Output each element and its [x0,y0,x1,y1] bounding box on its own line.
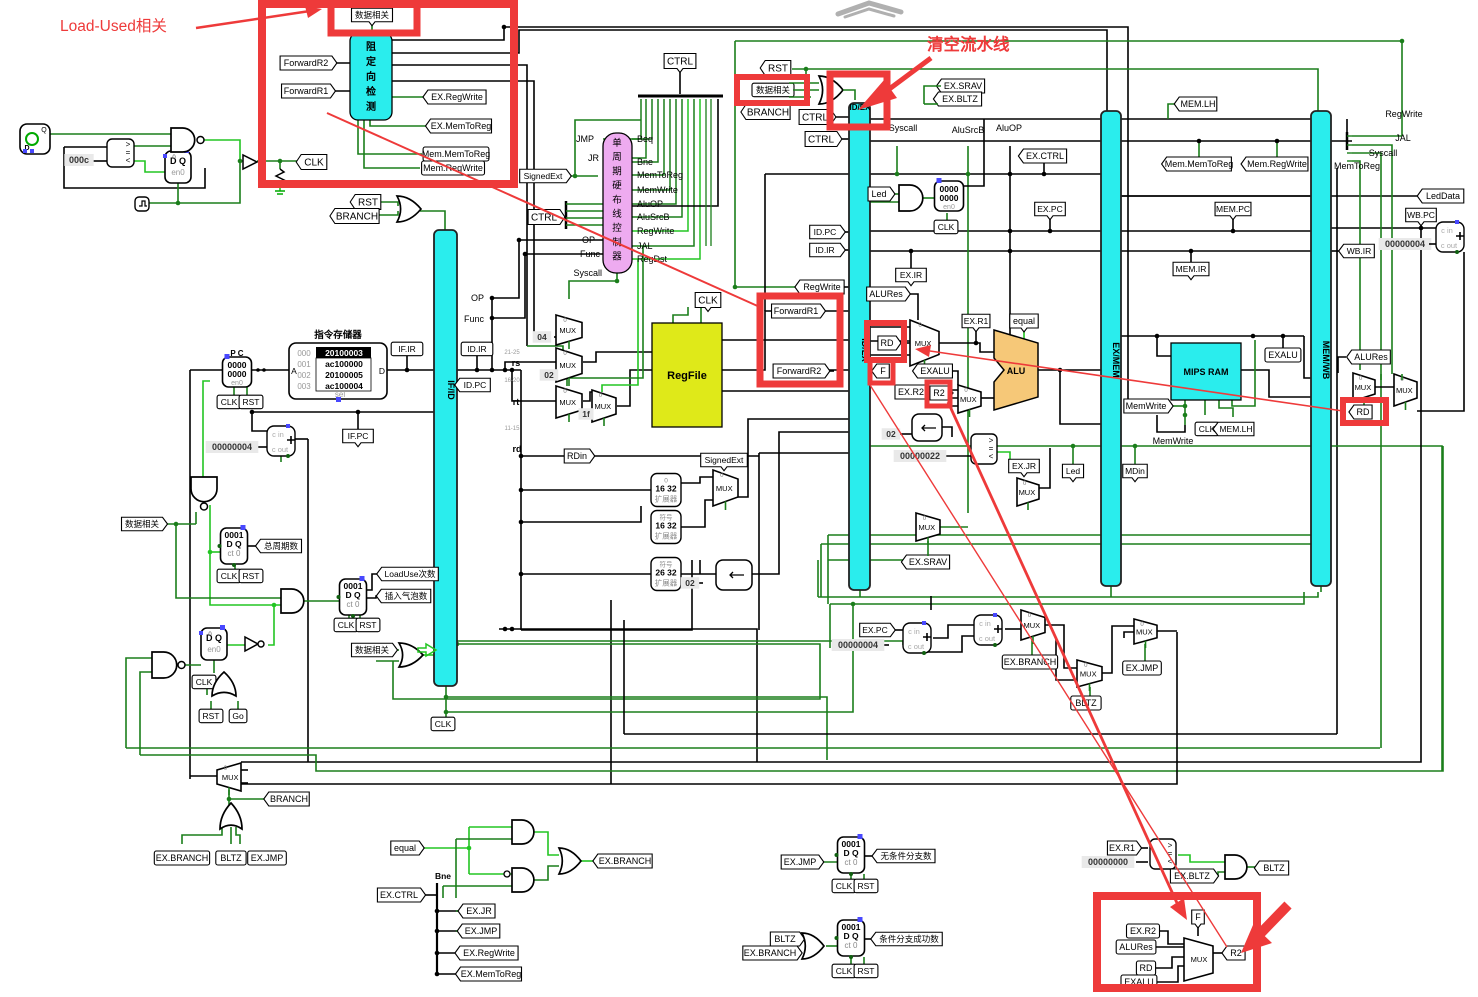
wire [280,456,282,462]
wire [236,827,240,844]
wire [521,489,652,491]
svg-text:RD: RD [881,338,894,348]
wire [1197,923,1199,936]
tunnel EX.RegWrite bl [455,946,518,960]
wire [437,910,464,912]
wire [623,620,625,734]
wire [679,500,713,527]
svg-text:RD: RD [1140,963,1153,973]
svg-text:16 32: 16 32 [655,484,677,494]
svg-text:RST: RST [768,63,788,74]
wire [632,99,652,139]
OR gate exbranch [559,848,581,874]
wire [1089,687,1091,696]
svg-text:00000004: 00000004 [212,442,252,452]
svg-text:EX.BRANCH: EX.BRANCH [156,853,209,863]
wire [632,99,658,162]
wire [825,370,834,372]
wire [64,147,205,188]
svg-text:AluOP: AluOP [637,199,663,209]
svg-text:EX.JMP: EX.JMP [1126,663,1159,673]
wire [1178,855,1225,862]
tunnel MEM.LH top [1174,97,1217,111]
mux jmp [1134,619,1157,648]
register led [935,178,964,211]
wire [1352,161,1360,370]
wire [1157,336,1171,356]
tunnel EX.BRANCH cnt [743,946,802,960]
tunnel EX.R1 ex [962,314,990,332]
svg-text:LedData: LedData [1426,191,1460,201]
svg-text:BLTZ: BLTZ [1263,863,1285,873]
annotation red rect forward [760,296,840,384]
wire [583,352,652,362]
label RD br [1136,961,1155,975]
svg-text:Mem.MemToReg: Mem.MemToReg [1165,159,1234,169]
pipeline register MEM/WB [1311,111,1331,586]
wire [722,311,849,370]
mux pc-src [217,763,241,795]
RegFile [652,323,722,427]
wire [1043,163,1045,174]
svg-text:CLK: CLK [836,881,853,891]
tunnel BLTZ cnt [770,932,804,946]
svg-text:ALU: ALU [1007,366,1026,376]
wire [392,30,1107,111]
tunnel 插入气泡数 [376,589,431,603]
tunnel CTRL left [528,210,565,225]
wire [1346,132,1349,150]
mux wb-1 [1353,373,1375,405]
svg-text:CTRL: CTRL [808,134,835,145]
wire [1009,146,1011,386]
wire [268,605,274,645]
counter jumps [835,834,865,876]
svg-text:EX.R2: EX.R2 [898,387,924,397]
svg-text:MUX: MUX [222,773,239,782]
tunnel SignedExt2 [701,453,748,471]
wire [838,249,849,251]
tunnel Led [868,187,895,201]
svg-text:扩展器: 扩展器 [655,531,678,541]
wire [863,957,865,964]
wire [1198,141,1200,158]
wire [505,362,556,370]
svg-text:R2: R2 [933,388,945,398]
wire [1156,966,1184,982]
wire [1102,626,1134,673]
tunnel 数据相关 top [352,8,393,26]
inverter [245,637,258,651]
svg-text:RegWrite: RegWrite [803,282,840,292]
wire [307,439,309,455]
AND gate bne [512,868,534,892]
svg-text:IF.IR: IF.IR [398,344,415,354]
annotation red rect top small [331,2,417,33]
svg-text:RegWrite: RegWrite [1385,109,1422,119]
svg-text:MUX: MUX [918,523,935,532]
wire [870,201,899,203]
svg-text:c in: c in [908,627,920,636]
svg-text:数据相关: 数据相关 [756,85,791,95]
wire [456,838,512,840]
wire [64,146,107,148]
wire [826,945,838,947]
label 数据相关 idex [752,83,794,97]
tunnel CLK regfile [695,293,721,312]
svg-text:en0: en0 [207,645,221,654]
svg-text:Mem.MemToReg: Mem.MemToReg [422,149,491,159]
svg-text:00000022: 00000022 [900,451,940,461]
tunnel EX.R2 ex [895,385,932,399]
wire [735,41,1402,136]
wire [1136,847,1148,849]
constant 00000022 [894,450,947,462]
label CLK c1 [217,569,241,583]
wire [134,145,171,147]
label CLK pc [217,395,241,409]
wire [827,535,829,604]
wire [975,328,977,343]
wire [575,120,641,176]
wire [1380,374,1382,380]
svg-text:条件分支成功数: 条件分支成功数 [879,934,939,944]
svg-text:EX.PC: EX.PC [1037,204,1063,214]
annotation line to store mux 1 [948,402,1177,903]
wire [1134,446,1136,466]
wire [828,559,916,561]
wire [863,874,865,879]
svg-text:MUX: MUX [559,361,576,370]
wire [910,251,912,268]
AND gate stall [191,477,217,510]
wire [742,432,849,574]
wire [820,544,822,597]
svg-text:数据相关: 数据相关 [125,519,160,529]
svg-text:16-20: 16-20 [504,378,520,384]
tunnel BRANCH [330,209,379,224]
svg-text:RST: RST [360,620,377,630]
wire [679,573,716,575]
wire [1352,135,1402,137]
svg-text:002: 002 [297,371,311,380]
svg-text:器: 器 [612,252,622,263]
svg-text:EX.CTRL: EX.CTRL [1026,151,1064,161]
svg-text:Syscall: Syscall [573,268,602,278]
probe IF.IR [391,342,423,356]
svg-text:ID.PC: ID.PC [464,380,487,390]
NAND gate go [152,652,185,678]
AND gate led [899,185,923,211]
wire [520,370,522,630]
wire [603,99,646,158]
counter taken [835,917,865,959]
svg-text:MUX: MUX [716,484,733,493]
svg-text:CLK: CLK [338,620,355,630]
wire [456,930,464,932]
wire [617,370,652,406]
wire [870,446,1442,771]
wire [941,389,958,391]
svg-text:<: < [126,156,131,165]
tunnel BRANCH bl [264,792,309,806]
annotation big arrow store mux [1258,905,1288,936]
wire [50,133,171,135]
wire [679,477,713,483]
wire [1072,446,1074,466]
svg-text:20100005: 20100005 [325,370,363,380]
wire [818,861,838,863]
svg-text:20100003: 20100003 [325,348,363,358]
tunnel 无条件分支数 [872,849,935,863]
svg-text:EX.IR: EX.IR [900,270,922,280]
svg-text:Go: Go [232,711,244,721]
svg-text:CLK: CLK [196,677,213,687]
tunnel 条件分支成功数 [871,932,943,946]
wire [1038,448,1050,488]
mux jr [1017,478,1039,510]
wire [1304,336,1311,378]
tunnel RegWrite id [795,280,844,294]
OR gate branch [220,803,242,829]
tunnel EX.SRAV mid [901,555,949,569]
svg-text:BRANCH: BRANCH [270,794,308,804]
label RST go [199,709,223,723]
constant 1f [579,408,594,420]
label RST pc [239,395,263,409]
tunnel MEM.LH ram [1213,422,1254,436]
wire [924,103,938,105]
mux bltz [1077,660,1102,691]
wire [632,99,682,217]
mux srav [916,513,940,545]
wire [699,560,701,574]
svg-text:EXALU: EXALU [920,366,950,376]
tunnel EX.BRANCH out [593,854,652,868]
clock source [20,124,50,154]
svg-text:000c: 000c [69,155,89,165]
wire [387,369,521,371]
svg-text:ID.PC: ID.PC [814,227,837,237]
svg-text:向: 向 [366,70,376,83]
svg-text:Func: Func [464,314,485,324]
svg-text:MUX: MUX [559,326,576,335]
gray chevron handle [838,3,901,14]
svg-text:RST: RST [203,711,220,721]
wire [257,446,267,448]
tunnel CLK [296,155,327,170]
svg-text:CTRL: CTRL [667,56,694,67]
svg-text:MUX: MUX [1355,383,1372,392]
wire [521,560,692,630]
tunnel R2 br [1222,946,1245,960]
wire [792,69,1318,111]
wire [902,294,918,320]
svg-text:EX.R2: EX.R2 [1130,926,1156,936]
wire [1038,369,1101,371]
svg-text:MemWrite: MemWrite [637,185,678,195]
wire [581,860,597,862]
wire [1156,957,1184,968]
label RST c1 [239,569,263,583]
constant 00000004 if [206,441,259,453]
tunnel EX.BLTZ top [933,92,981,106]
tunnel RST idex [760,61,791,76]
annotation red rect hazard [262,4,514,184]
svg-text:控: 控 [612,222,622,234]
tunnel F [872,364,890,378]
label CLK go [192,675,216,689]
wire [1336,168,1338,734]
label ALURes br [1116,940,1156,954]
tunnel IF.PC [343,429,374,447]
tunnel EX.BLTZ br [1170,869,1218,883]
svg-text:MIPS RAM: MIPS RAM [1184,367,1229,377]
svg-text:Q: Q [41,127,47,134]
wire [946,213,948,220]
svg-text:线: 线 [612,208,622,220]
wire [527,346,563,350]
svg-text:c out: c out [979,634,996,643]
wire [870,326,910,328]
wire [1031,640,1033,655]
svg-text:SignedExt: SignedExt [524,171,563,181]
wire [1219,399,1233,417]
svg-text:硬: 硬 [612,181,622,192]
tunnel SignedExt [520,169,572,183]
wire [380,202,398,206]
counter loaduse [337,576,367,618]
svg-text:数据相关: 数据相关 [355,10,390,20]
svg-text:MUX: MUX [1136,628,1153,637]
tunnel WB.PC [1406,208,1437,226]
svg-text:Func: Func [580,249,601,259]
svg-text:ForwardR1: ForwardR1 [284,86,329,96]
wire [610,600,612,784]
svg-text:JAL: JAL [1395,133,1411,143]
svg-text:MemWrite: MemWrite [1153,436,1194,446]
OR gate stall2 [399,643,423,667]
tunnel ForwardR2 [280,56,337,70]
wire [237,701,239,710]
tunnel EX.PC top [1035,202,1066,220]
svg-text:EX.R1: EX.R1 [964,316,989,326]
wire [941,405,958,407]
mux sa [556,315,582,349]
wire [210,701,212,710]
wire [456,910,464,912]
wire [392,27,1128,398]
wire [818,592,1318,597]
svg-text:D: D [379,366,385,376]
tunnel ForwardR1 [282,84,336,98]
AND gate bltz [1225,855,1247,879]
mux rt-forward [556,386,582,422]
wire [1347,152,1352,154]
tunnel ForwardR2 id [773,364,830,378]
hazard detection unit 阻定向检测 [350,33,392,120]
wire [213,659,215,673]
wire [1060,370,1101,424]
tunnel ForwardR1 id [772,304,826,318]
tunnel EX.RegWrite [423,90,486,104]
wire [1005,628,1021,630]
svg-text:c out: c out [272,445,289,454]
label Go [229,709,247,723]
tunnel EXALU ex [913,364,953,378]
wire [446,604,853,712]
wire [941,427,952,437]
wire [201,140,243,161]
svg-text:ID.IR: ID.IR [467,344,486,354]
wire [1121,230,1311,232]
svg-text:EXALU: EXALU [1268,350,1298,360]
wire [889,629,903,631]
wire [624,733,1337,735]
NAND gate U-top [171,128,204,152]
wire [1347,144,1352,146]
tunnel ID.IR idex [810,243,846,257]
wire [1375,386,1394,388]
svg-text:IF/ID: IF/ID [446,380,456,400]
wire [896,146,898,174]
wire [566,224,603,226]
svg-text:MUX: MUX [1019,488,1036,497]
wire [565,201,568,229]
wire [206,688,208,695]
wire [1346,119,1348,132]
extender 26-32 [651,558,681,591]
svg-text:MEM.PC: MEM.PC [1216,204,1250,214]
wire [870,354,910,356]
wire [392,81,534,340]
wire [446,697,827,760]
wire [442,886,444,898]
svg-text:ct 0: ct 0 [347,600,360,609]
svg-text:A: A [291,366,297,376]
wire [838,231,849,233]
tunnel EX.JR ex [1009,459,1040,477]
tunnel BLTZ out [1254,861,1288,875]
svg-text:ForwardR2: ForwardR2 [777,366,822,376]
tunnel EX.CTRL bl [377,888,425,902]
wire [816,369,849,371]
wire [722,390,849,392]
svg-text:JAL: JAL [637,241,653,251]
svg-text:CLK: CLK [221,571,238,581]
svg-text:EX.JR: EX.JR [1012,461,1036,471]
svg-text:BLTZ: BLTZ [220,853,242,863]
wire [534,866,559,880]
wire [705,99,707,246]
constant 02 ex [882,428,901,440]
label CLK ifid [431,717,455,731]
tunnel RST [350,195,381,210]
wire [836,138,849,140]
OR gate go [212,672,236,696]
wire [554,336,556,338]
wire [737,419,849,497]
wire [445,640,903,642]
wire [1124,632,1134,638]
wire [491,298,493,370]
constant 00000000 [1082,856,1135,868]
svg-text:D Q: D Q [843,931,859,941]
svg-text:P C: P C [230,349,243,358]
svg-text:equal: equal [1013,316,1035,326]
OR gate takenbranch [802,933,824,959]
wire [939,343,994,352]
